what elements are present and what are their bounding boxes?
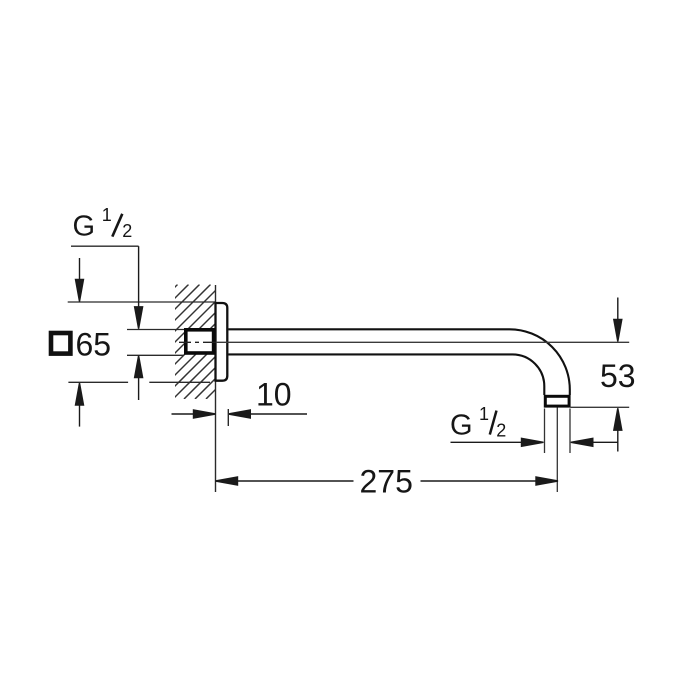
wall face line [215, 285, 217, 492]
dim G1/2 top: lower arrow [135, 356, 143, 400]
flange right edge extension for 10 dim [227, 409, 229, 426]
outlet center extension line [556, 408, 558, 493]
nut top extension line [127, 329, 184, 331]
svg-text:G: G [73, 211, 96, 243]
flange escutcheon plate [216, 303, 228, 381]
label G 1/2 (bottom) [450, 404, 506, 442]
svg-text:53: 53 [600, 358, 636, 394]
flange bottom extension line [68, 381, 128, 383]
svg-text:1: 1 [479, 404, 489, 424]
svg-text:2: 2 [496, 420, 506, 440]
nut bottom extension line [127, 354, 184, 356]
label square-65 [51, 327, 111, 363]
threaded end cap [545, 396, 569, 406]
G1/2 top leader line [71, 245, 139, 247]
svg-text:10: 10 [256, 377, 292, 413]
label G 1/2 (top) [73, 205, 133, 243]
cap bottom extension line for 53 dim [570, 406, 629, 408]
dim 65: lower arrow [76, 383, 84, 427]
flange top extension line [68, 301, 216, 303]
svg-text:2: 2 [122, 221, 132, 241]
svg-text:1: 1 [102, 205, 112, 225]
dim 53: lower arrow [614, 408, 622, 451]
extension line below cap right [569, 409, 571, 454]
shower arm pipe outline (top edge with outer elbow arc) [228, 329, 569, 395]
square union nut at wall [186, 330, 214, 353]
dim 275 [216, 477, 559, 485]
svg-text:G: G [450, 410, 473, 442]
pipe axis line (solid, extends right as 53-dim extension) [216, 341, 630, 343]
svg-text:275: 275 [360, 464, 413, 500]
svg-text:65: 65 [76, 327, 112, 363]
dim 65: upper arrow [76, 258, 84, 302]
shower arm pipe outline (bottom edge with inner elbow arc) [228, 354, 544, 395]
dim G1/2 bottom [451, 438, 619, 446]
dim 53: upper arrow [614, 298, 622, 342]
wall hatching [63, 285, 321, 400]
dim G1/2 top: upper arrow [135, 246, 143, 329]
pipe center dash-dot line through nut [179, 341, 216, 343]
dim 10 [172, 410, 308, 418]
extension line below cap left [544, 409, 546, 454]
